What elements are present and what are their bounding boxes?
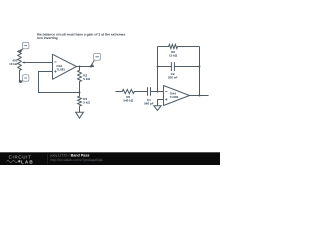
svg-text:15 kΩ: 15 kΩ bbox=[169, 54, 178, 58]
svg-text:TL081: TL081 bbox=[56, 68, 65, 72]
svg-text:5 kΩ: 5 kΩ bbox=[83, 101, 90, 105]
svg-text:5 kΩ: 5 kΩ bbox=[83, 77, 90, 81]
svg-text:non inverting: non inverting bbox=[37, 36, 58, 40]
svg-text:TL081: TL081 bbox=[170, 95, 179, 99]
svg-text:http://circuitlab.com/c/7pt44a: http://circuitlab.com/c/7pt44aq453jw bbox=[51, 158, 104, 162]
svg-text:LAB: LAB bbox=[21, 159, 34, 164]
svg-text:540 kΩ: 540 kΩ bbox=[123, 98, 134, 102]
svg-text:560 pF: 560 pF bbox=[144, 101, 154, 105]
svg-text:joey12725 / Band Pass: joey12725 / Band Pass bbox=[50, 153, 90, 157]
svg-text:10 kΩ: 10 kΩ bbox=[9, 62, 18, 66]
svg-text:200 nF: 200 nF bbox=[168, 76, 178, 80]
